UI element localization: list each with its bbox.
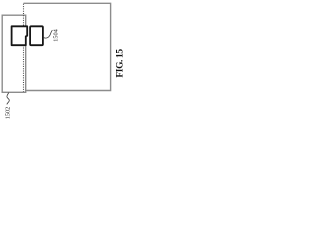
svg-text:FIG. 15: FIG. 15 <box>115 49 125 78</box>
flap (small left rectangle) <box>2 15 26 92</box>
fold line (dotted hinge line) <box>23 4 25 92</box>
leader line to label 1502 (squiggle) <box>7 93 9 105</box>
component 1504 left square (bold, jogged right edge) <box>12 26 28 45</box>
leader line to label 1504 <box>43 30 52 38</box>
svg-text:1502: 1502 <box>4 107 11 120</box>
component 1504 right square (bold) <box>30 26 43 45</box>
svg-text:1504: 1504 <box>53 28 60 41</box>
device body (large rectangle, top/right/bottom edges) <box>24 3 111 90</box>
